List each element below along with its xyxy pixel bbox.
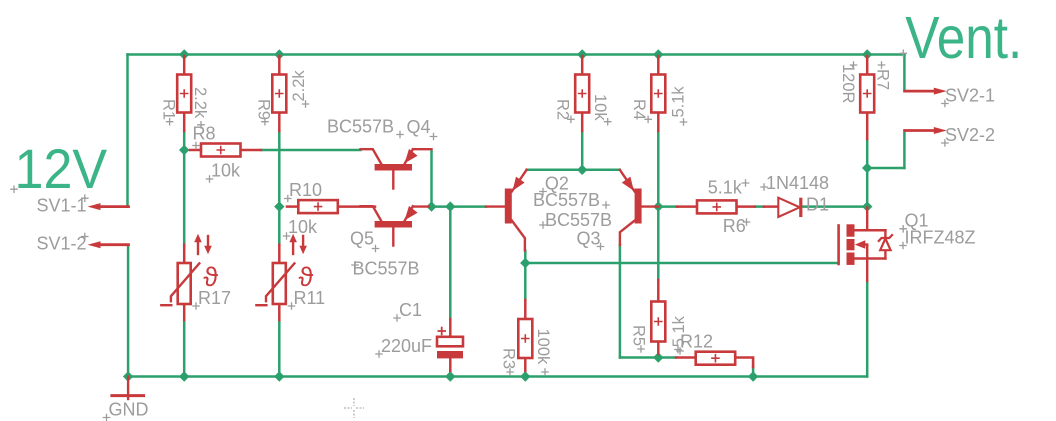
- junction GND rail R3: [520, 371, 530, 381]
- wire Q3 collector row to R5 node: [620, 356, 658, 359]
- svg-text:SV2-1: SV2-1: [945, 86, 995, 106]
- wire SV2-1 branch: [903, 55, 906, 92]
- label R9 2.2k: [255, 70, 310, 126]
- svg-text:R5: R5: [630, 325, 648, 346]
- wire R8 to Q4 collector: [261, 149, 361, 152]
- label R5 5.1k: [630, 315, 689, 354]
- pin leads R10: [287, 205, 375, 208]
- svg-text:R1: R1: [160, 99, 178, 120]
- svg-text:R17: R17: [198, 288, 231, 308]
- pin leads R4: [657, 56, 660, 131]
- wire Q1 source to GND rail: [866, 281, 869, 377]
- resistor R6: [697, 200, 737, 213]
- sheet origin marker: [344, 398, 364, 418]
- svg-text:R7: R7: [874, 69, 892, 90]
- label Q3: [577, 229, 605, 251]
- transistor Q3 BC557B: [620, 170, 659, 245]
- svg-text:Q3: Q3: [577, 229, 601, 249]
- label Q2: [539, 174, 569, 196]
- wire R4 down to Q3 base node: [657, 131, 660, 207]
- pin leads R8: [190, 149, 261, 152]
- origin cross Vent: [900, 50, 908, 58]
- svg-text:R11: R11: [294, 288, 326, 308]
- junction top rail R9: [274, 49, 284, 59]
- svg-text:R6: R6: [723, 216, 746, 236]
- svg-text:GND: GND: [109, 400, 149, 420]
- label BC557B Q3: [539, 210, 612, 230]
- wire R6 left lead: [658, 205, 677, 208]
- svg-text:C1: C1: [399, 300, 422, 320]
- junction R10 node: [274, 201, 284, 211]
- pin leads R7: [866, 56, 869, 139]
- svg-text:120R: 120R: [839, 64, 857, 104]
- svg-text:SV2-2: SV2-2: [945, 125, 995, 145]
- svg-text:R12: R12: [680, 332, 713, 352]
- wire SV1-2 drop to GND rail: [127, 245, 130, 377]
- wire base node down to R5: [657, 207, 660, 280]
- wire Q2 emitter to Q3 emitter: [527, 169, 620, 172]
- label R6 5.1k: [708, 178, 751, 237]
- resistor R5: [651, 302, 665, 342]
- label R12: [674, 332, 713, 354]
- junction GND rail R12: [748, 371, 758, 381]
- svg-text:D1: D1: [806, 195, 829, 215]
- svg-text:Vent.: Vent.: [905, 5, 1022, 71]
- pin leads R5: [657, 280, 660, 354]
- svg-text:2.2k: 2.2k: [290, 70, 308, 102]
- pin leads R12: [676, 358, 753, 368]
- thermistor R11: [256, 234, 313, 305]
- label SV2-1: [941, 86, 995, 108]
- resistor R7: [860, 75, 874, 113]
- label R10 10k: [283, 180, 322, 240]
- svg-text:BC557B: BC557B: [545, 210, 612, 230]
- label BC557B Q2: [533, 190, 610, 210]
- junction R5 R12 node: [653, 352, 663, 362]
- junction emitter node: [577, 165, 587, 175]
- svg-text:SV1-2: SV1-2: [37, 234, 87, 254]
- resistor R1: [177, 75, 191, 113]
- wire D1 to drain node: [803, 205, 868, 208]
- junction GND rail R17: [179, 371, 189, 381]
- origin cross 12V: [10, 185, 18, 193]
- svg-text:BC557B: BC557B: [327, 117, 394, 137]
- junction top rail R2: [577, 49, 587, 59]
- svg-text:10k: 10k: [288, 217, 318, 237]
- svg-text:SV1-1: SV1-1: [37, 196, 87, 216]
- wire R8 node down to R17: [183, 150, 186, 245]
- thermistor R17: [161, 234, 218, 305]
- label GND: [103, 400, 149, 421]
- svg-text:100k: 100k: [534, 329, 552, 366]
- label R8 10k: [192, 124, 241, 183]
- svg-text:10k: 10k: [591, 94, 609, 121]
- label 1N4148 D1: [760, 173, 829, 215]
- transistor Q4 BC557B: [361, 149, 432, 189]
- wire node to R3: [524, 263, 527, 300]
- pin leads R2: [581, 56, 584, 131]
- junction GND rail C1: [445, 371, 455, 381]
- label R11: [288, 288, 325, 310]
- svg-text:BC557B: BC557B: [353, 259, 420, 279]
- resistor R10: [298, 200, 338, 213]
- wire R1 to R8 node: [183, 131, 186, 150]
- junction top rail R1: [179, 49, 189, 59]
- resistor R8: [201, 144, 241, 157]
- resistor R4: [651, 75, 665, 113]
- pin lead D1 anode: [764, 205, 779, 208]
- transistor Q2 BC557B: [486, 170, 527, 251]
- wire 12V top rail: [128, 53, 905, 56]
- label SV1-2: [37, 233, 89, 254]
- pin leads R11: [278, 245, 281, 320]
- svg-text:R9: R9: [255, 99, 273, 120]
- wire GND bottom rail: [128, 375, 868, 378]
- junction R8 node: [179, 145, 189, 155]
- pin leads R3: [524, 300, 527, 319]
- wire Q3 collector down: [619, 245, 622, 358]
- wire R17 to GND rail: [183, 320, 186, 377]
- wire R7 to SV2-2 node: [866, 139, 869, 207]
- svg-text:220uF: 220uF: [381, 336, 432, 356]
- junction Q2 collector node: [520, 258, 530, 268]
- label Q1 IRFZ48Z: [899, 211, 975, 250]
- wire R12 right drop to GND rail: [752, 367, 755, 377]
- mosfet Q1 IRFZ48Z: [839, 208, 893, 282]
- wire R6 to D1: [755, 205, 764, 208]
- label R2 10k: [554, 94, 612, 126]
- svg-text:1N4148: 1N4148: [766, 173, 829, 193]
- junction Q3 base node: [653, 201, 663, 211]
- ground symbol GND: [112, 377, 144, 400]
- svg-text:R2: R2: [554, 99, 572, 120]
- label R1 2.2k: [160, 87, 210, 129]
- svg-text:10k: 10k: [211, 161, 241, 181]
- connector pin SV2-2: [905, 127, 947, 134]
- wire drain node column: [866, 55, 869, 58]
- label R17: [192, 288, 231, 310]
- label C1 220uF: [375, 300, 432, 358]
- connector pin SV2-1: [905, 88, 947, 95]
- svg-text:R3: R3: [500, 348, 518, 369]
- wire Q4 emitter drop: [430, 151, 433, 207]
- svg-text:5.1k: 5.1k: [708, 178, 743, 198]
- svg-text:12V: 12V: [15, 138, 108, 200]
- label R7 120R: [839, 61, 892, 103]
- pin leads R6: [677, 205, 755, 208]
- pin leads R17: [183, 245, 186, 320]
- svg-text:BC557B: BC557B: [533, 190, 600, 210]
- diode D1: [778, 198, 802, 217]
- junction GND rail left: [123, 371, 133, 381]
- label R3 100k: [500, 329, 553, 376]
- wire R2 to emitter node: [581, 131, 584, 170]
- label SV2-2: [941, 125, 995, 147]
- junction drain node: [862, 201, 872, 211]
- pin lead C1 top: [449, 319, 452, 337]
- label SV1-1: [37, 194, 89, 215]
- svg-text:IRFZ48Z: IRFZ48Z: [905, 228, 976, 248]
- junction SV2-2 node: [862, 163, 872, 173]
- label R4 5.1k: [630, 86, 688, 126]
- wire collector row to Q1 gate: [525, 262, 838, 265]
- wire SV2-2 branch: [867, 131, 904, 169]
- capacitor C1: [437, 327, 463, 359]
- pin lead C1 bottom: [449, 358, 452, 371]
- label BC557B Q4: [327, 117, 437, 141]
- wire R12 left: [658, 356, 676, 359]
- connector pin SV1-2: [88, 241, 129, 248]
- wire C1 to GND rail: [449, 371, 452, 377]
- junction C1 node: [445, 201, 455, 211]
- junction top rail R4: [653, 49, 663, 59]
- wire R3 to GND rail: [524, 359, 527, 377]
- resistor R9: [272, 75, 286, 113]
- junction GND rail R11: [274, 371, 284, 381]
- pin leads R1: [183, 56, 186, 131]
- svg-text:2.2k: 2.2k: [191, 87, 209, 119]
- resistor R12: [696, 352, 736, 365]
- wire Q2 collector node: [524, 251, 527, 264]
- wire R9 down to R10 node: [278, 131, 281, 207]
- transistor Q5 BC557B: [361, 206, 429, 246]
- pin leads R9: [278, 56, 281, 131]
- svg-text:R8: R8: [193, 124, 216, 144]
- junction Q4 emitter node: [426, 201, 436, 211]
- label Q5 BC557B: [350, 229, 420, 279]
- svg-text:R4: R4: [630, 99, 648, 120]
- svg-text:R10: R10: [289, 180, 322, 200]
- resistor R3: [518, 319, 532, 358]
- wire 12V left drop to SV1-1: [126, 55, 129, 207]
- junction top rail R7: [862, 49, 872, 59]
- wire Q5 emitter to Q2 base: [429, 205, 486, 208]
- svg-text:Q4: Q4: [407, 117, 431, 137]
- wire node to C1: [449, 207, 452, 319]
- svg-text:5.1k: 5.1k: [670, 86, 688, 118]
- svg-text:Q5: Q5: [350, 229, 374, 249]
- wire R10 node down to R11: [278, 207, 281, 245]
- resistor R2: [575, 75, 589, 113]
- wire R11 to GND rail: [278, 320, 281, 377]
- connector pin SV1-1: [88, 203, 129, 210]
